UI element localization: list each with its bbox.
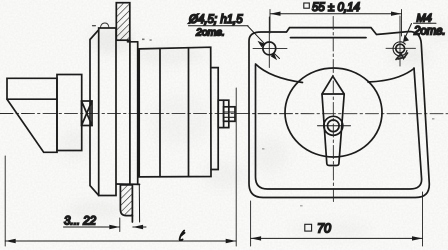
body bay0 left edge xyxy=(129,40,131,184)
center boss outer circle xyxy=(324,116,343,135)
pointer shoulder line xyxy=(322,93,344,95)
handle knob inner line xyxy=(7,98,57,100)
bezel ring xyxy=(90,30,99,196)
handle knob front block xyxy=(7,78,57,152)
handle knob rear bushing xyxy=(57,75,82,151)
svg-text:55 ± 0,14: 55 ± 0,14 xyxy=(312,2,360,14)
top dimension label square symbol xyxy=(304,3,310,8)
body main block xyxy=(139,47,211,177)
shaft crossed box xyxy=(82,101,93,126)
overall length label (script l) xyxy=(180,231,185,241)
dimension 3...22 line and arrows xyxy=(64,226,147,228)
body division line 1 xyxy=(159,48,161,176)
extension below bay0 right edge xyxy=(138,184,140,222)
plate inner line left-bottom-right xyxy=(256,65,422,189)
shaft flange xyxy=(218,100,229,127)
dust specks xyxy=(142,21,434,207)
body bay0 right edge xyxy=(137,42,139,185)
svg-text:2отв.: 2отв. xyxy=(195,27,225,39)
svg-text:Ø4,5; h1,5: Ø4,5; h1,5 xyxy=(188,14,243,26)
svg-text:2отв.: 2отв. xyxy=(413,26,446,38)
top-left lobe arc xyxy=(256,64,303,83)
body step section xyxy=(211,68,218,170)
bottom dimension square symbol xyxy=(305,224,312,231)
top dimension line xyxy=(270,13,402,15)
smudge near M4 hole xyxy=(396,53,408,60)
body bay0 top edge xyxy=(128,41,138,43)
bezel hidden detail dash xyxy=(92,25,95,27)
mounting hole left (d4.5) xyxy=(263,42,276,55)
shaft slot lines xyxy=(224,111,235,113)
body division line 2 xyxy=(188,48,190,177)
panel section top (hatched) xyxy=(116,3,130,41)
right view vertical center line xyxy=(332,17,334,205)
svg-text:70: 70 xyxy=(317,222,331,236)
svg-text:3... 22: 3... 22 xyxy=(64,216,97,228)
panel hole edge below hatch xyxy=(131,216,133,222)
boss horizontal crosshair xyxy=(318,125,351,127)
plate inner top line under tab xyxy=(291,37,367,39)
shaft end xyxy=(224,107,235,122)
central circle (switch boss) xyxy=(285,68,382,157)
panel section bottom (hatched) xyxy=(120,185,132,216)
scan mottle blobs xyxy=(57,22,448,238)
overall length dimension line xyxy=(5,88,236,246)
axis center line (dash-dot, horizontal, both views) xyxy=(0,113,448,115)
dimension 3...22 extension lines xyxy=(119,218,121,232)
hole left leader line xyxy=(248,26,265,44)
bezel hidden detail arc xyxy=(101,23,109,28)
front plate edge-on xyxy=(99,28,116,196)
bottom dimension 70 extension lines xyxy=(251,192,423,246)
hole right leader line xyxy=(404,24,412,41)
top-right lobe arc xyxy=(368,69,414,83)
plate outer outline xyxy=(249,28,429,198)
body bay0 bottom edge xyxy=(117,183,140,185)
top dimension 55+-0.14 extension lines xyxy=(270,10,402,37)
bottom dimension line xyxy=(251,237,423,239)
pointer handle front view xyxy=(322,76,344,165)
center boss inner circle xyxy=(328,120,340,132)
mounting hole right (M4) xyxy=(396,44,405,53)
